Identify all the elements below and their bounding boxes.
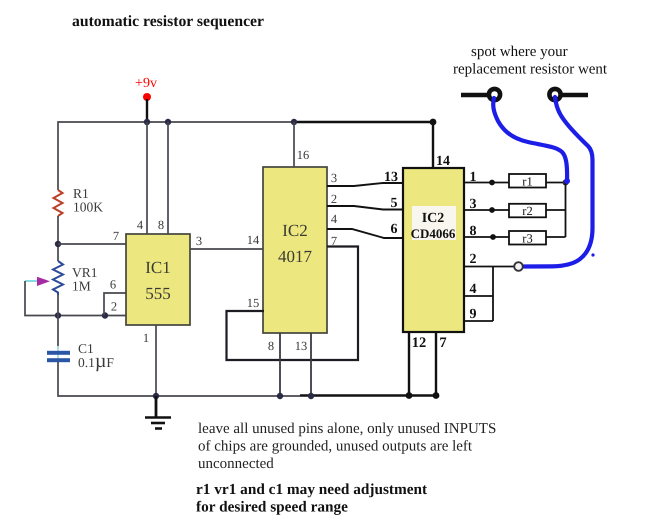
svg-text:unconnected: unconnected [198,456,274,472]
wire 4017 pin3 to 4066 pin13 [327,183,403,186]
svg-text:IC1: IC1 [145,258,171,277]
note text unused pins [198,421,496,472]
node 4017 pin8 ground junction [277,393,283,399]
pin 8 label 4066 [470,224,477,239]
pin 6 label [110,278,116,292]
wire r1 r2 r3 common vertical [565,183,567,238]
wire r3 right [546,236,566,238]
wire pin 7 of IC1 [58,243,126,245]
svg-text:automatic resistor sequencer: automatic resistor sequencer [72,13,264,30]
svg-text:13: 13 [384,170,398,185]
wire pin 16 of 4017 [293,122,295,167]
wire r1 right [546,182,565,184]
wire pin 8 of 4066 [464,236,509,238]
svg-text:7: 7 [113,229,119,243]
blue wire right terminal to pin2 [524,97,593,267]
wire pin 3 of 4066 [464,209,509,211]
wire pin 1 of IC1 [155,325,157,396]
svg-text:2: 2 [470,252,477,267]
svg-text:4: 4 [137,218,144,232]
counter IC2 4017 [263,167,327,333]
svg-text:13: 13 [295,339,308,353]
note text adjustment [196,481,428,516]
pin 7 label 4066 [439,335,446,351]
node 4017 pin13 ground junction [308,393,314,399]
node pin6 branch junction [102,312,108,318]
pin 7 label 4017 [331,234,337,248]
wire pin 9 of 4066 [464,320,493,322]
wire wiper loop down [25,281,127,316]
svg-text:+9v: +9v [135,76,157,91]
svg-text:1M: 1M [72,279,91,294]
wire 4017 pin2 to 4066 pin5 [327,206,403,210]
pin 3 label [196,234,202,248]
svg-text:6: 6 [110,278,116,292]
svg-text:8: 8 [158,218,164,232]
svg-text:2: 2 [331,192,337,206]
svg-text:IC2: IC2 [282,221,308,240]
pin 8 label 4017 [268,339,274,353]
svg-text:1: 1 [143,331,149,345]
node pin1 ground junction [153,393,159,399]
node 4066 pin7 ground junction [433,392,440,399]
svg-text:leave all unused pins alone, o: leave all unused pins alone, only unused… [198,421,496,437]
node pin14 corner junction [430,119,437,126]
wire ground bus black segment [300,394,436,397]
pin 7 label [113,229,119,243]
node r1 right junction [563,180,569,186]
svg-text:7: 7 [439,335,446,351]
wire pin 2 of 4066 [464,266,518,268]
VR1 wiper cyan lead [25,280,37,282]
pin 2 label 4017 [331,192,337,206]
pin 4 label 4017 [331,212,338,226]
pin 4 label [137,218,144,232]
node pin1 dot [489,180,495,186]
wire pin7 to pin15 loop [227,247,359,361]
pin 15 label [247,296,260,310]
wire pin 8 of IC1 [167,122,169,234]
node R1/pin7 junction [55,241,61,247]
svg-text:CD4066: CD4066 [411,226,456,241]
ground [145,396,171,429]
title [72,13,264,30]
wire r2 right [546,209,566,211]
wire pin 4 of IC1 [146,122,148,234]
pin 8 label [158,218,164,232]
pin 13 label 4066 [384,170,398,185]
pin 3 label 4066 [470,197,477,212]
svg-text:3: 3 [331,171,337,185]
pin 2 label [111,300,117,314]
wire 4017 pin4 to 4066 pin6 [327,229,403,238]
wire top bus black segment [294,122,433,168]
svg-text:r2: r2 [522,204,532,218]
wire pin 12 of 4066 to ground [408,332,410,396]
node pin16 junction [291,119,297,125]
wire pin 6 branch of IC1 [104,293,127,316]
blue speck [591,253,594,256]
pin 12 label 4066 [412,335,427,351]
pin 16 label [297,148,310,162]
svg-text:r3: r3 [522,232,532,246]
pin 13 label 4017 [295,339,308,353]
node VR1 bottom junction [55,312,61,318]
pin 4 label 4066 [470,282,477,297]
blue wire left terminal to r1 node [493,98,567,181]
pin 1 label 4066 [470,170,477,185]
pin 2 label 4066 [470,252,477,267]
node 4066 pin12 ground junction [406,392,413,399]
svg-text:spot where your: spot where your [471,44,568,60]
svg-text:3: 3 [470,197,477,212]
svg-text:1: 1 [470,170,477,185]
pin 1 label [143,331,149,345]
svg-text:2: 2 [111,300,117,314]
svg-text:9: 9 [470,307,477,322]
node pin8 dot [490,234,496,240]
terminal right [549,89,588,100]
svg-text:8: 8 [470,224,477,239]
wire pin 13 of 4017 to ground [310,333,312,396]
+9v supply dot [143,93,151,101]
svg-text:555: 555 [145,284,171,303]
wire pin 3 IC1 to pin 14 4017 [190,248,264,250]
wire top bus gray segment [58,122,294,190]
VR1 wiper arrow [37,277,50,286]
wire pin 1 of 4066 [464,182,509,184]
pin 9 label 4066 [470,307,477,322]
potentiometer VR1 [53,261,98,295]
pin 3 label 4017 [331,171,337,185]
svg-text:C1: C1 [78,341,94,356]
svg-text:IC2: IC2 [422,211,445,226]
wire pins 2 4 9 common vertical [492,267,494,322]
wire pin 8 of 4017 to ground [279,333,281,396]
wire R1 to VR1 [57,216,59,261]
svg-text:4: 4 [470,282,477,297]
resistor r3 [509,231,546,246]
node pin3 dot [489,207,495,213]
svg-text:12: 12 [412,335,427,351]
resistor R1 [54,186,104,216]
wire pin 7 of 4066 to ground [435,332,437,396]
wire C1 to ground bus [58,362,300,396]
svg-text:of chips are grounded, unused: of chips are grounded, unused outputs ar… [198,439,473,455]
resistor r2 [509,204,546,218]
pin 6 label 4066 [391,222,398,237]
svg-text:14: 14 [247,233,260,247]
pin 5 label 4066 [391,196,398,211]
wire pin 4 of 4066 [464,295,493,297]
svg-text:4: 4 [331,212,338,226]
wire +9v to top bus [146,99,148,122]
svg-text:3: 3 [196,234,202,248]
svg-text:16: 16 [297,148,310,162]
svg-text:for desired speed range: for desired speed range [196,499,348,516]
svg-text:15: 15 [247,296,260,310]
svg-text:replacement resistor went: replacement resistor went [453,62,608,78]
svg-text:5: 5 [391,196,398,211]
svg-text:r1 vr1 and c1 may need adjustm: r1 vr1 and c1 may need adjustment [196,481,428,498]
pin 14 label 4066 [436,154,450,169]
svg-text:100K: 100K [73,200,103,215]
wire VR1 to C1 [57,295,59,351]
resistor r1 [509,174,546,189]
switch IC2 CD4066 [403,168,464,332]
op IC1 555 [126,234,190,325]
svg-text:14: 14 [436,154,450,169]
pin 14 label [247,233,260,247]
terminal label text [453,44,608,78]
capacitor C1 [47,341,114,372]
svg-text:4017: 4017 [278,247,313,266]
svg-text:r1: r1 [522,175,532,189]
+9v supply label [135,76,157,91]
blue wire end dot [564,178,570,184]
node pin8 junction [165,119,171,125]
svg-text:8: 8 [268,339,274,353]
blue wire end ring [514,262,523,271]
terminal left [461,89,500,100]
node +9v junction [144,119,150,125]
svg-text:6: 6 [391,222,398,237]
